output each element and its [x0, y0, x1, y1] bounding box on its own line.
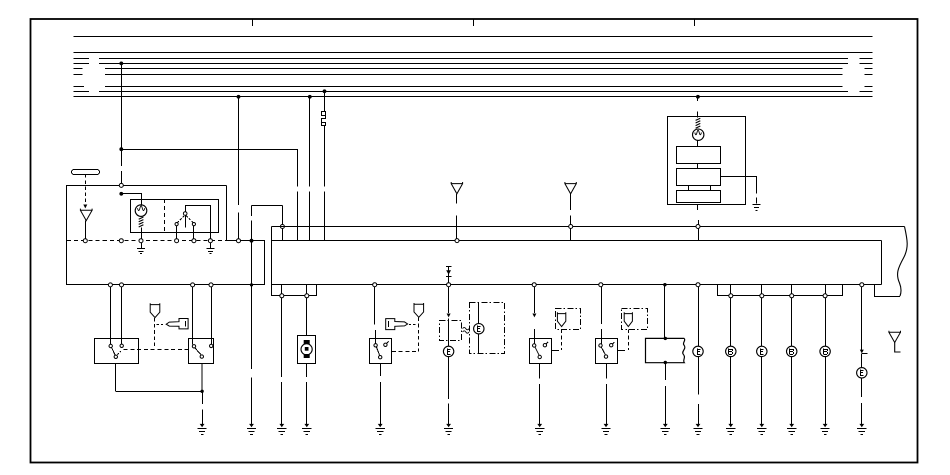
junction on feed A inside block: [119, 192, 123, 196]
wire W1 vertical upper: [297, 149, 299, 186]
dashed lead from capsule: [85, 174, 87, 203]
switch S1 common circle: [183, 212, 187, 216]
strip L pin wire 2: [306, 285, 308, 294]
key head pentagon 2: [414, 303, 424, 317]
bus line 4: [74, 63, 873, 65]
band right connector strip: [718, 285, 843, 296]
wire element 2 to 3 right stub: [710, 186, 712, 191]
switch B contact L: [192, 345, 195, 348]
junction on bus line 9 at x238: [237, 95, 241, 99]
connector circle E2: [474, 324, 484, 334]
wire block to ground lower: [251, 378, 253, 425]
wire meter to band: [698, 220, 700, 225]
junction on bus line 9 at x310: [308, 95, 312, 99]
ground G7: [302, 424, 311, 435]
strip L pin wire 1: [281, 285, 283, 294]
wire feed C lower: [309, 192, 311, 241]
wire W2 into band: [282, 229, 284, 241]
strip R pin circle 1: [729, 294, 733, 298]
bus line 1 (top feed): [74, 36, 873, 38]
switch S1 contact R circle: [192, 223, 195, 226]
switch S1 contact L wire: [176, 226, 178, 239]
wire E4 to ground: [761, 357, 763, 425]
band left connector strip: [272, 285, 317, 296]
ignition pivot: [379, 356, 382, 359]
key head pentagon 4: [624, 312, 632, 326]
band bottom junction x665: [663, 283, 666, 286]
strip R pin circle 4: [823, 294, 827, 298]
wire antenna2 inside band: [570, 229, 572, 241]
block bottom pass-through dot: [250, 283, 253, 286]
wire feed B upper: [238, 97, 240, 205]
meter element 2: [677, 169, 721, 186]
strip R pin wire 2: [761, 285, 763, 294]
wire meter inside band: [698, 229, 700, 241]
wire E1 to ground upper: [448, 357, 450, 399]
switch S1 contact L circle: [175, 223, 178, 226]
key symbol 1: [166, 319, 188, 329]
switch A linkage dash: [117, 351, 121, 354]
wire E1 to ground lower: [448, 404, 450, 425]
wire feed C upper: [309, 97, 311, 187]
switch box B: [189, 339, 214, 364]
pentagon 4 dash-dot case: [622, 309, 648, 330]
wire E5 lower: [861, 403, 863, 425]
wire W2 horizontal: [252, 205, 283, 207]
wire switch A down: [115, 364, 117, 392]
motor M1: [301, 340, 312, 358]
key head pentagon 1: [150, 303, 160, 317]
key switch B contact R: [610, 342, 615, 347]
switch A pivot: [114, 355, 117, 358]
meter box: [668, 117, 746, 205]
switch S1 contact R wire: [193, 226, 195, 239]
wire B2 to ground: [791, 357, 793, 425]
diode D1: [446, 266, 451, 282]
switch box A: [95, 339, 139, 364]
ground G10: [535, 424, 544, 435]
key switch A contact L: [533, 344, 536, 347]
wire band to connector E3: [698, 287, 700, 347]
left block internal dashed bus: [67, 240, 227, 242]
switch S1 dashed throw right: [186, 216, 193, 223]
wire band down x449 upper: [448, 287, 450, 313]
pin circle W2 at band top: [280, 225, 284, 229]
wire triangle to pin: [85, 221, 87, 239]
key switch B arm: [601, 347, 605, 355]
lamp L2 in meter: [693, 129, 704, 140]
fold tick 1 on top border: [252, 19, 254, 26]
bus line 7: [74, 86, 873, 88]
wire feed D lower: [324, 192, 326, 241]
switch B contact R: [210, 344, 213, 347]
strip R pin circle 2: [760, 294, 764, 298]
key symbol 2: [386, 319, 408, 330]
ground G5: [198, 424, 207, 435]
wire E3 to ground lower: [698, 404, 700, 425]
band bottom pin x374: [373, 283, 377, 287]
wire antenna2 to band: [570, 216, 572, 225]
key 1 dashed link: [157, 324, 165, 326]
wire band down x862 upper: [861, 287, 863, 351]
splice marks: [463, 327, 469, 333]
wire feed D upper: [324, 91, 326, 111]
wire meter down stub: [697, 204, 699, 210]
switch A contact R: [120, 344, 123, 347]
wire strip pin to ground left lower: [281, 382, 283, 425]
junction on bus line 4: [119, 62, 123, 66]
bus line 5: [74, 68, 873, 70]
strip R pin wire 3: [791, 285, 793, 294]
pin circle antenna2 at band top: [569, 225, 573, 229]
ground G12: [661, 424, 670, 435]
wire ignition to ground lower: [380, 382, 382, 425]
strip R pin wire 4: [825, 285, 827, 294]
band inner right edge: [881, 241, 883, 285]
wire W2 up segment 2: [251, 206, 253, 216]
key switch B stub: [618, 350, 625, 352]
wire key switch B to ground upper: [606, 363, 608, 378]
key switch box B: [596, 339, 618, 364]
wire band to ignition switch lower: [375, 330, 377, 344]
connector circle E1: [443, 346, 453, 356]
key 2 dashed link: [409, 324, 417, 326]
wire switch A-B bottom link: [116, 391, 202, 393]
pin circle meter wire at band top: [696, 225, 700, 229]
wire key switch A to ground upper: [539, 363, 541, 378]
linkage dashed A-B: [124, 349, 189, 351]
pentagon 3 dash-dot case: [556, 309, 581, 330]
wire feed A lower: [121, 171, 123, 183]
band bottom pin x534: [532, 283, 536, 287]
wire bus to meter lower: [697, 112, 699, 118]
junction bottom link: [200, 390, 203, 393]
ground G11: [601, 424, 610, 435]
block bottom pin 1: [108, 283, 112, 287]
bus line 2: [74, 52, 873, 54]
wire pin4 to switch box B: [211, 287, 213, 344]
ground G15: [757, 424, 766, 435]
wire pin1 to switch box A: [110, 287, 112, 344]
wire bus to meter stub: [697, 97, 699, 101]
connector circle E5: [857, 368, 867, 378]
connector pin circle switch contact R: [192, 239, 196, 243]
ground G13: [693, 424, 702, 435]
arrowhead x449: [447, 314, 451, 318]
left block outline: [67, 186, 265, 285]
switch S1 dashed throw left: [178, 216, 185, 223]
bus line 6: [74, 74, 873, 76]
motor box: [298, 336, 316, 364]
ground G6: [277, 424, 286, 435]
band bottom pin x601: [599, 283, 603, 287]
bus line 9: [74, 96, 873, 98]
arrowhead x534: [532, 314, 536, 318]
key linkage dashed vertical 1: [154, 318, 156, 349]
wire E3 to ground upper: [698, 357, 700, 395]
wire link to ground upper: [202, 391, 204, 404]
ground G2 inside block: [206, 243, 214, 254]
wire meter ground stub: [756, 198, 758, 204]
junction on bus line 9 at x698: [696, 95, 700, 99]
connector circle E3: [693, 346, 703, 356]
switch S1 common wire: [186, 206, 211, 239]
key B dashed vertical: [628, 330, 630, 350]
wire strip pin1 down: [730, 298, 732, 346]
wire band down x601 upper: [601, 287, 603, 325]
switch B arm: [195, 348, 201, 355]
wire x534 lower: [534, 329, 536, 344]
wire strip pin3 down: [791, 298, 793, 346]
band inner bottom edge: [271, 284, 881, 286]
connector case dash-dot small: [440, 321, 462, 341]
wire block to ground upper: [251, 241, 253, 369]
wire band down x601 lower: [601, 329, 603, 344]
wire feed A upper: [121, 63, 123, 166]
ground G3: [247, 424, 256, 435]
inner box of left block: [131, 200, 219, 233]
junction on bus line 8 at x324: [323, 89, 327, 93]
key switch box A: [530, 339, 552, 364]
connector pin circle on feed B: [237, 239, 241, 243]
ground G14: [726, 424, 735, 435]
wire link to ground lower: [202, 410, 204, 425]
key head pentagon 3: [557, 312, 565, 326]
block bottom pin 2: [120, 283, 124, 287]
filled arrowhead on capsule lead: [83, 205, 87, 209]
wire x449 through case: [448, 318, 450, 346]
ignition linkage dashed: [392, 351, 419, 353]
wire feed D mid: [324, 126, 326, 187]
wire in case lower: [478, 334, 480, 353]
coil in meter: [696, 118, 701, 128]
band left edge: [271, 227, 273, 296]
key switch A contact R: [543, 342, 548, 347]
wire element 1 to 2: [697, 163, 699, 169]
fold tick 2 on top border: [473, 19, 475, 26]
connector pin circle fed by capsule: [83, 239, 87, 243]
inner box dashed divider: [164, 199, 166, 233]
key switch A stub: [552, 350, 559, 352]
block bottom pin 4: [209, 283, 213, 287]
antenna symbol 1: [451, 182, 462, 203]
ignition contact R: [384, 342, 389, 347]
band bottom pin x862: [860, 283, 864, 287]
key A dashed vertical: [561, 330, 563, 350]
antenna symbol 2: [565, 182, 576, 210]
junction torn box bottom: [664, 361, 667, 364]
wire meter ground branch: [720, 177, 756, 194]
band bottom pin x698: [696, 283, 700, 287]
block bottom pin 3: [191, 283, 195, 287]
meter element 1: [677, 147, 721, 164]
wire ignition to ground upper: [380, 363, 382, 376]
ignition arm: [376, 347, 379, 356]
ground G17: [821, 424, 830, 435]
coil under lamp: [139, 217, 144, 227]
wire motor to ground upper: [306, 364, 308, 377]
wire torn box to ground lower: [665, 386, 667, 425]
junction on feed A: [119, 147, 123, 151]
connector pin circle switch common: [208, 239, 212, 243]
fuse F1: [322, 112, 326, 126]
switch A arm: [112, 348, 116, 356]
wire band down x534 upper: [534, 287, 536, 313]
strip R pin wire 1: [730, 285, 732, 294]
wire strip pin2 down: [761, 298, 763, 346]
band inner top edge: [271, 240, 881, 242]
key switch A arm: [535, 347, 539, 355]
key linkage dashed vertical 2: [418, 318, 420, 352]
ground G9: [444, 424, 453, 435]
connector pin circle under lamp: [139, 239, 143, 243]
wire torn box to ground upper: [665, 363, 667, 380]
wire W2 up segment: [251, 221, 253, 241]
wire to lamp: [122, 194, 142, 205]
key switch A pivot: [538, 355, 541, 358]
ignition contact L: [374, 344, 377, 347]
bus line 3: [74, 58, 873, 60]
wire B1 to ground: [730, 357, 732, 425]
junction torn box top: [664, 337, 667, 340]
band outer top edge: [271, 226, 904, 228]
bus line 8: [74, 91, 873, 93]
fold tick 3 on top border: [694, 19, 696, 26]
switch S1 arm: [185, 215, 187, 227]
wire strip pin to ground left upper: [281, 298, 283, 377]
strip R pin circle 3: [790, 294, 794, 298]
band torn right edge: [898, 227, 908, 297]
wire switch B down: [201, 364, 203, 392]
wire in case upper: [478, 302, 480, 323]
ground G1 inside block: [137, 243, 145, 254]
wire W1 vertical lower: [297, 192, 299, 241]
junction W2 on block bus: [250, 239, 254, 243]
pin circle feed A at block top: [119, 183, 123, 187]
ignition switch box: [370, 339, 392, 364]
connector pin circle switch contact L: [175, 239, 179, 243]
wire band to ignition switch upper: [374, 287, 376, 325]
wire pin3 to switch box B: [192, 287, 194, 345]
wire W2 down segment: [282, 206, 284, 225]
arrowhead x862: [860, 350, 868, 354]
band torn bottom step: [875, 285, 901, 297]
capsule connector symbol: [72, 170, 100, 175]
antenna symbol 3: [889, 331, 901, 352]
wire lamp to element 1: [697, 140, 699, 146]
wire antenna1 to band: [456, 216, 458, 239]
connector circle B3: [820, 346, 830, 356]
strip L pin circle 2: [305, 294, 309, 298]
wire pin2 to switch box A: [121, 287, 123, 344]
wire key switch B to ground lower: [606, 384, 608, 425]
open triangle symbol: [80, 209, 92, 221]
lamp L1: [135, 205, 147, 217]
wire B3 to ground: [825, 357, 827, 425]
wire strip pin4 down: [825, 298, 827, 346]
wire motor to ground lower: [306, 382, 308, 425]
torn component box: [646, 338, 685, 362]
ground G16: [787, 424, 796, 435]
switch A contact L: [109, 344, 112, 347]
meter element 3: [677, 191, 721, 203]
connector pin circle on feed A: [119, 239, 123, 243]
wire E5 mid: [861, 378, 863, 397]
wire element 2 to 3 left stub: [688, 186, 690, 191]
wire x862 arrow to circle: [861, 353, 863, 367]
key switch B pivot: [604, 355, 607, 358]
connector circle E4: [757, 346, 767, 356]
wire band to torn box: [664, 285, 666, 338]
strip L pin circle 1: [280, 294, 284, 298]
key switch B contact L: [599, 344, 602, 347]
ground G8: [376, 424, 385, 435]
wire strip pin to motor: [306, 298, 308, 336]
wire feed B lower: [238, 213, 240, 239]
connector circle B1: [726, 346, 736, 356]
ground G18: [857, 424, 866, 435]
wire coil to pin: [141, 228, 143, 239]
wire W1 horizontal: [121, 149, 297, 151]
connector circle B2: [787, 346, 797, 356]
connector case dash-dot large: [470, 303, 505, 354]
wire key switch A to ground lower: [539, 384, 541, 425]
band bottom pin x449: [447, 283, 451, 287]
pin circle antenna1 at inner line: [455, 239, 459, 243]
ground G4 meter: [753, 205, 761, 211]
switch B pivot: [200, 355, 203, 358]
